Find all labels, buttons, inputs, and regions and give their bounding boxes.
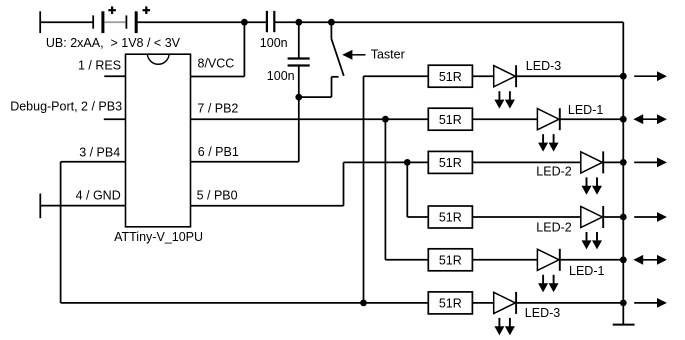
svg-text:LED-2: LED-2 — [536, 221, 571, 235]
wire between battery cells (gray) — [104, 21, 126, 23]
svg-text:UB: 2xAA, > 1V8 / < 3V: UB: 2xAA, > 1V8 / < 3V — [46, 36, 181, 50]
wire row6 feed from PB4 — [61, 302, 429, 304]
arrow in/out row2 — [633, 114, 667, 124]
LED D3 — [581, 151, 603, 194]
pin 1 stub — [104, 75, 125, 77]
svg-text:100n: 100n — [267, 69, 295, 83]
wire pin 5 PB0 — [191, 162, 344, 205]
svg-text:5 / PB0: 5 / PB0 — [197, 188, 238, 202]
arrow out row1 — [634, 71, 667, 81]
wire right rail — [622, 22, 624, 324]
capacitor C2 100n (decoupling) — [288, 59, 310, 66]
wire switch bottom to node — [299, 96, 332, 98]
wire pin 4 GND — [40, 205, 125, 207]
svg-text:LED-2: LED-2 — [536, 165, 571, 179]
svg-text:7 / PB2: 7 / PB2 — [197, 101, 238, 115]
svg-text:Taster: Taster — [371, 47, 405, 61]
node rail row4 — [620, 214, 627, 221]
node VCC junction — [241, 19, 248, 26]
wire D5 to right rail — [560, 259, 624, 261]
svg-text:6 / PB1: 6 / PB1 — [198, 145, 239, 159]
battery cell B1 (long plate, +) — [103, 6, 116, 33]
wire R6 to D6 — [472, 302, 493, 304]
wire R3 to D3 — [472, 161, 580, 163]
node rail row5 — [620, 256, 627, 263]
svg-text:LED-1: LED-1 — [569, 264, 604, 278]
svg-text:8/VCC: 8/VCC — [198, 56, 235, 70]
ground — [613, 324, 635, 326]
battery cell B2 (long plate, +) — [136, 6, 150, 33]
wire row5 feed — [385, 259, 428, 261]
wire R5 to D5 — [472, 259, 537, 261]
svg-text:LED-3: LED-3 — [526, 59, 561, 73]
LED D2 — [537, 108, 559, 151]
resistor R5 51R — [428, 249, 472, 271]
op IC U1 ATTiny body — [126, 54, 191, 227]
node switch top junction — [328, 19, 335, 26]
svg-text:51R: 51R — [439, 253, 462, 267]
wire D6 to right rail — [516, 302, 623, 304]
node rail row6 — [620, 300, 627, 307]
svg-text:51R: 51R — [439, 70, 462, 84]
node PB4 riser/row6 junction — [360, 300, 367, 307]
resistor R1 51R — [428, 65, 472, 87]
wire pin 7 PB2 row — [191, 118, 429, 120]
pin 2 stub — [104, 118, 126, 120]
svg-text:51R: 51R — [439, 113, 462, 127]
LED D6 — [494, 292, 516, 335]
LED D1 — [494, 65, 516, 108]
arrow out row3 — [634, 158, 667, 168]
capacitor C1 100n (series) — [267, 11, 274, 32]
battery cell B1 (short plate) — [92, 15, 94, 28]
IC U1 notch — [147, 54, 169, 64]
node row3/row4 junction — [404, 159, 411, 166]
wire pin 3 PB4 — [61, 162, 126, 303]
wire row3 feed from PB0 — [344, 161, 429, 163]
svg-text:51R: 51R — [439, 156, 462, 170]
wire PB4 riser — [363, 76, 365, 303]
wire D1 to right rail — [516, 75, 623, 77]
resistor R4 51R — [428, 206, 472, 228]
svg-text:1 / RES: 1 / RES — [78, 58, 121, 72]
svg-text:LED-1: LED-1 — [568, 103, 603, 117]
wire row4 feed — [407, 216, 428, 218]
wire R4 to D4 — [472, 216, 580, 218]
battery cell B2 (short plate) — [125, 15, 127, 28]
arrow out row6 — [634, 298, 667, 308]
wire pin 6 PB1 — [191, 97, 299, 162]
wire start terminal (battery minus lead) — [40, 11, 93, 33]
svg-text:ATTiny-V_10PU: ATTiny-V_10PU — [114, 230, 203, 244]
wire row3 to row4 riser — [406, 162, 408, 217]
wire D4 to right rail — [603, 216, 623, 218]
wire battery to capacitor C1 — [138, 21, 267, 23]
arrow out row4 — [634, 212, 667, 222]
node C2 top junction — [295, 19, 302, 26]
node switch/C2/PB1 junction — [295, 94, 302, 101]
ground terminal bar — [39, 194, 41, 219]
LED D4 — [581, 206, 603, 249]
wire D2 to right rail — [560, 118, 624, 120]
wire PB2 riser to row5 — [384, 119, 386, 260]
wire C2 bottom lead — [298, 66, 300, 97]
wire R2 to D2 — [472, 118, 537, 120]
node rail row2 — [620, 116, 627, 123]
svg-text:51R: 51R — [439, 211, 462, 225]
wire R1 to D1 — [472, 75, 493, 77]
LED D5 — [537, 249, 559, 292]
wire VCC to pin 8 — [191, 22, 245, 76]
svg-text:LED-3: LED-3 — [525, 306, 560, 320]
switch S1 Taster — [331, 22, 343, 97]
annotation arrow to switch — [342, 50, 365, 60]
svg-text:3 / PB4: 3 / PB4 — [79, 145, 120, 159]
wire D3 to right rail — [603, 161, 623, 163]
node rail row3 — [620, 159, 627, 166]
svg-text:Debug-Port, 2 / PB3: Debug-Port, 2 / PB3 — [10, 100, 122, 114]
svg-text:51R: 51R — [439, 297, 462, 311]
wire C2 top lead — [298, 22, 300, 58]
svg-text:4 / GND: 4 / GND — [76, 188, 121, 202]
wire top supply rail — [275, 21, 623, 23]
resistor R6 51R — [428, 292, 472, 314]
node PB2/row2 junction — [382, 116, 389, 123]
node rail row1 — [620, 73, 627, 80]
wire row1 feed from PB4 riser — [364, 75, 429, 77]
svg-text:100n: 100n — [260, 36, 288, 50]
arrow in/out row5 — [633, 255, 667, 265]
resistor R2 51R — [428, 108, 472, 130]
resistor R3 51R — [428, 151, 472, 173]
